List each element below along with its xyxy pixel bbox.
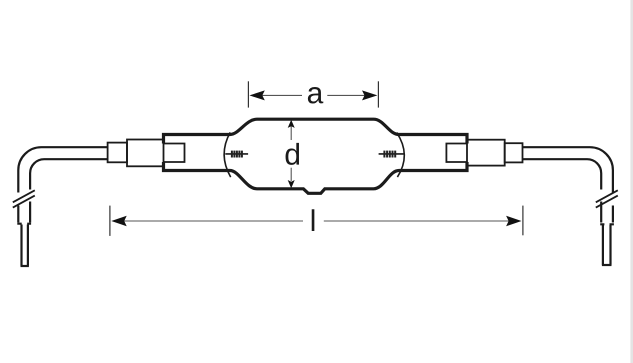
dimension d: bottom arrowhead xyxy=(288,180,295,188)
electrode right coil hatch xyxy=(384,151,395,158)
dimension l: left arrowhead xyxy=(111,216,126,227)
lamp envelope top contour xyxy=(164,119,468,143)
left lead wire outer edge xyxy=(18,147,107,192)
dimension a: right arrowhead xyxy=(362,90,377,100)
dimension l: line right segment xyxy=(324,220,509,222)
dimension d: top arrowhead xyxy=(288,120,295,128)
right crimp sleeve xyxy=(505,143,523,162)
right wire break slashes xyxy=(596,190,618,202)
dimension a: line left segment xyxy=(262,94,302,96)
right lead wire inner edge xyxy=(523,159,602,189)
electrode right lead line xyxy=(379,153,404,155)
dimension a: left arrowhead xyxy=(249,90,264,100)
label l xyxy=(312,209,315,231)
dimension a: right extension tick xyxy=(377,81,379,107)
electrode left coil hatch xyxy=(232,151,242,158)
left pinch seal xyxy=(127,140,164,167)
right pinch seal xyxy=(467,140,505,166)
left narrow wire bottom cap xyxy=(21,265,29,267)
right lead wire outer edge xyxy=(523,147,613,192)
lamp envelope bottom contour with pip xyxy=(164,162,468,193)
dimension l: line left segment xyxy=(124,220,303,222)
label d xyxy=(286,143,299,165)
right narrow wire xyxy=(603,225,611,265)
right narrow wire bottom cap xyxy=(602,264,612,266)
dimension d: lower line segment xyxy=(290,168,292,181)
left molybdenum foil xyxy=(164,144,185,163)
dimension l: right arrowhead xyxy=(506,216,521,227)
left crimp sleeve xyxy=(108,143,127,163)
inner arc right xyxy=(397,132,405,177)
left wire break slashes xyxy=(13,190,35,202)
right wire end cap shoulders xyxy=(600,223,614,225)
electrode left lead line xyxy=(225,153,248,155)
dimension l: right extension tick xyxy=(522,206,524,236)
right molybdenum foil xyxy=(446,144,466,163)
dimension l: left extension tick xyxy=(109,206,111,236)
dimension a: left extension tick xyxy=(247,81,249,107)
left lead wire inner edge xyxy=(30,159,108,189)
inner arc left (discharge chamber end) xyxy=(224,132,231,177)
right page border strip xyxy=(630,0,633,363)
left wire end cap shoulders xyxy=(17,223,31,225)
dimension a: line right segment xyxy=(327,94,365,96)
left narrow wire xyxy=(22,225,28,266)
label a xyxy=(308,87,323,103)
dimension d: upper line segment xyxy=(290,126,292,140)
